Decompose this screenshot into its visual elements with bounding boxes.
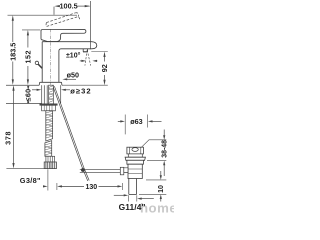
G3/8 connector nut [44, 162, 56, 169]
drain: flange [125, 157, 145, 160]
svg-text:10: 10 [158, 185, 165, 193]
svg-text:≤60: ≤60 [24, 89, 33, 102]
drain: waste head [127, 147, 143, 154]
dimension <=60 counter thickness [24, 86, 33, 103]
svg-text:ø≥32: ø≥32 [70, 86, 91, 95]
pivot joint [81, 168, 85, 172]
svg-text:±10°: ±10° [66, 52, 81, 60]
dashed raised handle [46, 13, 80, 27]
extension line hose ends [6, 168, 48, 170]
svg-text:G11/4": G11/4" [119, 202, 146, 212]
faucet body block + spout [42, 42, 97, 83]
flexible hose (braided) upper [46, 111, 53, 141]
svg-text:100.5: 100.5 [59, 2, 77, 11]
dimension 92 [63, 52, 109, 86]
svg-text:130: 130 [85, 184, 97, 191]
ø>=32 label and arrows [32, 86, 92, 95]
dimension 100.5 top [54, 1, 90, 49]
G3/8 connector ribbed collar [46, 156, 55, 162]
drain: tailpipe [129, 179, 137, 195]
deck bottom line [6, 103, 42, 105]
G1 1/4 dimension arrows [114, 194, 154, 201]
dimension 130 [48, 169, 123, 191]
plus-minus 10 degree swivel dashes [85, 50, 91, 66]
aerator [83, 49, 88, 52]
dimension 378 [4, 85, 15, 168]
G3/8 label with leader arrow [20, 176, 48, 187]
svg-text:183.5: 183.5 [8, 43, 17, 61]
mounting washer [40, 104, 58, 106]
faucet handle (solid) [41, 29, 86, 41]
mounting nut [42, 105, 56, 111]
svg-text:G3/8": G3/8" [20, 176, 41, 185]
dimension 10 [139, 171, 166, 202]
svg-text:38-48: 38-48 [162, 140, 169, 158]
base plate [39, 82, 62, 85]
clevis at drain [120, 167, 124, 175]
ø63 dimension [118, 115, 162, 135]
deck hole edges [41, 85, 43, 103]
svg-text:ø63: ø63 [130, 117, 142, 126]
flexible hose (braided) lower [45, 141, 52, 158]
svg-text:152: 152 [23, 50, 32, 64]
plus-minus 10 degree label and arrows [66, 52, 97, 62]
dimension 152 [23, 30, 32, 85]
drain: neck [128, 154, 142, 157]
deck top lines [6, 84, 39, 86]
pop-up rod knob on body [35, 61, 42, 68]
pop-up rod diagonal [53, 86, 89, 181]
ø50 label with leader [62, 71, 79, 81]
svg-text:92: 92 [100, 64, 109, 72]
extension line top of handle (solid) [22, 29, 40, 31]
svg-text:378: 378 [4, 131, 13, 145]
dimension 183.5 left [8, 15, 17, 85]
threaded shank with hoses (hatched) [44, 85, 53, 104]
extension line top of raised handle [8, 14, 78, 16]
svg-text:ø50: ø50 [67, 71, 79, 80]
faucet centerline [49, 29, 51, 85]
drain: body [124, 160, 144, 178]
horizontal pop-up rod [80, 170, 121, 173]
dimension 38-48 [142, 130, 169, 177]
